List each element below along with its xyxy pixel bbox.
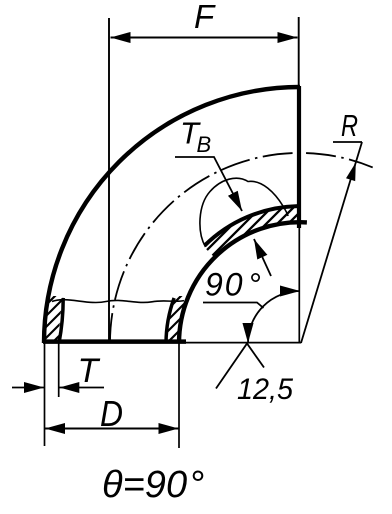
centerline arc (dash-dot, bend axis R) xyxy=(110,153,373,343)
bend wall outer edge (middle local section) xyxy=(205,206,298,246)
dimension D line xyxy=(45,428,179,430)
hatching left wall xyxy=(10,281,125,341)
inner arc (intrados silhouette) xyxy=(179,222,307,343)
baseline to corner xyxy=(179,342,301,344)
extension line right bottom (face to corner) xyxy=(298,226,300,343)
leader 90deg xyxy=(203,303,264,309)
svg-text:°: ° xyxy=(248,267,261,303)
svg-text:12,5: 12,5 xyxy=(237,373,293,406)
R shelf xyxy=(333,141,362,143)
angular dimension arc 90deg xyxy=(248,291,300,343)
svg-text:D: D xyxy=(100,393,123,434)
right wall bore line (bottom section) xyxy=(166,298,174,343)
dimension T left tail xyxy=(12,387,44,389)
R arrowhead on centerline arc xyxy=(346,163,356,182)
svg-text:B: B xyxy=(197,132,212,157)
svg-text:T: T xyxy=(78,352,101,390)
extension line right top (above end face) xyxy=(298,17,300,88)
top end face xyxy=(297,86,301,228)
hatching bend wall xyxy=(172,190,355,285)
svg-text:°: ° xyxy=(189,464,204,506)
extension line D right xyxy=(178,343,180,448)
svg-text:90: 90 xyxy=(205,267,245,303)
extension line D left xyxy=(44,343,46,446)
outer arc (extrados silhouette) xyxy=(44,87,300,343)
opposing arrow TB from below xyxy=(254,239,271,276)
extension line left (pipe axis / F datum) xyxy=(108,18,110,343)
svg-text:F: F xyxy=(194,0,216,35)
hatching right wall xyxy=(125,281,240,341)
dimension R line xyxy=(301,142,362,343)
break line dome of middle local section xyxy=(200,178,288,247)
bottom end face xyxy=(43,339,186,344)
extension line T right xyxy=(58,343,60,397)
surface roughness mark xyxy=(216,344,264,389)
leader TB with arrow to wall xyxy=(175,157,242,211)
left wall bore line (bottom section) xyxy=(59,298,63,343)
svg-text:R: R xyxy=(341,108,358,143)
svg-text:θ=90: θ=90 xyxy=(102,464,187,506)
wavy break line of bottom local section xyxy=(52,300,184,303)
dimension T right tail xyxy=(59,387,104,389)
dimension F line with arrows xyxy=(111,37,298,39)
